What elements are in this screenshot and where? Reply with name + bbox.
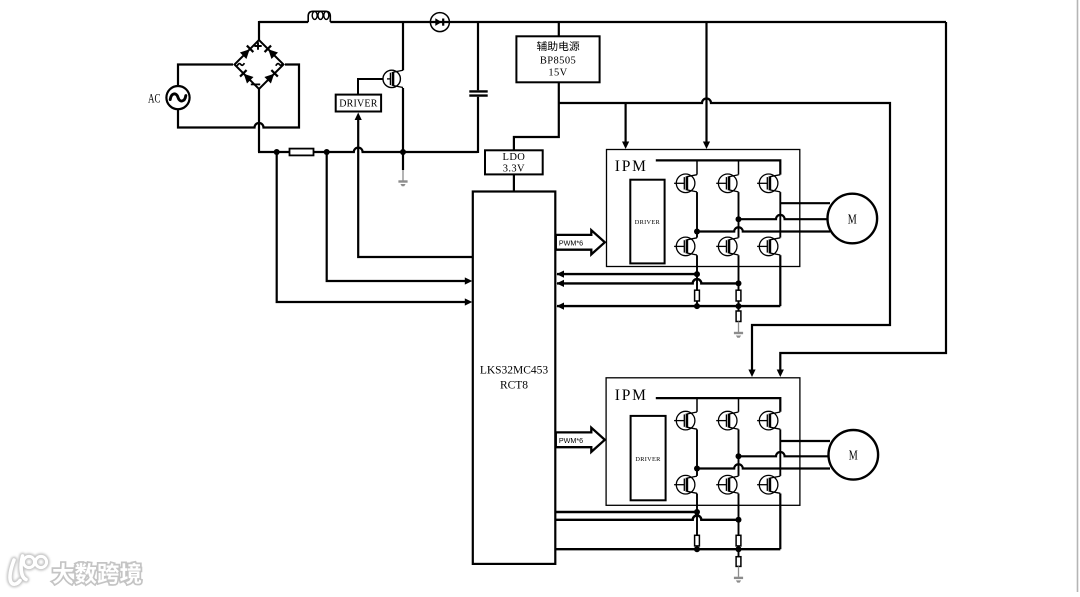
- svg-text:DRIVER: DRIVER: [635, 219, 661, 226]
- motor M2: [829, 430, 879, 480]
- arrow 15V into IPM2: [748, 370, 755, 378]
- svg-text:M: M: [848, 211, 857, 226]
- ground rail under PFC: [258, 148, 478, 152]
- feedback wire to MCU pin1 (y302): [277, 152, 466, 302]
- bridge ~ marks: [237, 63, 283, 66]
- IPM1 phase A output (hop at 738.5): [697, 227, 830, 231]
- aux supply top lead: [558, 21, 560, 36]
- HV DC bus top rail: [259, 21, 946, 23]
- bridge + mark: [254, 42, 261, 49]
- IPM2 bus drop U: [696, 398, 698, 412]
- bridge rectifier BR1: [235, 40, 284, 89]
- LDO U3 box: [485, 150, 543, 174]
- watermark logo: [10, 556, 47, 584]
- IPM1 phase rail 3: [779, 192, 781, 238]
- svg-text:3.3V: 3.3V: [503, 164, 525, 175]
- IPM2 phase B output (hop at 780): [739, 452, 831, 456]
- svg-text:15V: 15V: [548, 68, 567, 79]
- IPM1 phase rail 2: [738, 192, 740, 238]
- IPM2 top bus: [656, 398, 781, 412]
- IPM1 resistor RS3: [736, 311, 741, 322]
- motor M1: [828, 194, 878, 244]
- IPM2 box: [606, 378, 800, 506]
- gate wire DRIVER1 to Q1: [358, 79, 387, 95]
- boost diode D5: [430, 13, 449, 32]
- IPM1 lower rails to shunts: [696, 255, 698, 306]
- wire AC top to bridge left: [178, 65, 233, 87]
- IPM2 lower transistor Q5: [718, 475, 737, 494]
- IPM1 ground: [734, 322, 743, 338]
- node dot A: [274, 149, 280, 155]
- IPM2 phase rail 2: [738, 429, 740, 476]
- IPM2 shunt resistor RS5: [736, 535, 741, 546]
- PWM arrow 2: [556, 428, 605, 452]
- wire Q1 drain from HV rail: [402, 21, 404, 70]
- arrow HV into IPM2: [777, 370, 784, 378]
- IPM2 phase A output (hop at 738.5): [697, 464, 830, 468]
- IPM1 shunt resistor RS1: [695, 290, 700, 301]
- IPM1 phase C output: [780, 202, 830, 204]
- shunt resistor R1: [290, 149, 314, 156]
- IPM1 upper transistor Q3: [759, 174, 778, 193]
- right page border line: [1077, 0, 1079, 592]
- IPM2 feedback line y549: [555, 548, 780, 550]
- IPM2 DRIVER box: [631, 416, 666, 500]
- aux label 辅助电源: [537, 41, 547, 51]
- IPM2 feedback line y512: [555, 511, 697, 513]
- IPM2 upper transistor Q3: [759, 411, 778, 430]
- ground G1: [402, 152, 404, 170]
- svg-text:IPM: IPM: [615, 387, 648, 404]
- IPM1 DRIVER box: [630, 180, 664, 264]
- IPM2 resistor RS6: [736, 557, 741, 567]
- IPM2 lower transistor Q6: [759, 475, 778, 494]
- IPM2 phase C output: [780, 440, 830, 442]
- arrow into DRIVER1: [355, 113, 362, 121]
- IPM2 bus drop V: [738, 398, 740, 412]
- svg-text:DRIVER: DRIVER: [635, 456, 661, 463]
- DRIVER1 box: [336, 95, 381, 112]
- svg-text:PWM*6: PWM*6: [559, 436, 583, 445]
- node dot B: [324, 149, 330, 155]
- transistor Q1: [383, 70, 400, 87]
- 15V branch arrow into IPM1: [624, 103, 626, 142]
- IPM2 shunt resistor RS4: [695, 535, 700, 546]
- IPM2 lower rails to shunts: [696, 494, 698, 550]
- svg-text:IPM: IPM: [615, 158, 648, 175]
- IPM2 lower transistor Q4: [676, 475, 695, 494]
- IPM1 top bus: [656, 160, 781, 174]
- inductor L1: [308, 11, 330, 22]
- svg-text:PWM*6: PWM*6: [559, 238, 583, 247]
- svg-text:AC: AC: [148, 90, 161, 105]
- IPM1 shunt resistor RS2: [736, 290, 741, 301]
- MCU U1 box: [473, 192, 556, 564]
- IPM1 phase B output (hop at 780): [739, 215, 831, 219]
- IPM1 lower transistor Q5: [718, 237, 737, 256]
- HV branch into IPM1 (x706.5): [705, 22, 707, 142]
- svg-text:DRIVER: DRIVER: [339, 99, 378, 110]
- IPM2 phase rail 1: [696, 429, 698, 476]
- svg-text:M: M: [849, 448, 858, 463]
- svg-text:LKS32MC453: LKS32MC453: [480, 365, 549, 377]
- svg-text:BP8505: BP8505: [540, 56, 576, 67]
- aux power supply U2 box: [516, 36, 599, 82]
- LDO to MCU lead: [513, 174, 515, 192]
- HV right drop to IPM2: [780, 22, 946, 370]
- feedback wire to MCU pin2 (y281): [327, 152, 466, 281]
- node dot C: [400, 149, 406, 155]
- IPM1 lower transistor Q6: [759, 237, 778, 256]
- IPM2 feedback line y519.8 (hop at 697): [555, 516, 738, 520]
- IPM1 bus drop V-phase: [738, 160, 740, 174]
- wire AC bottom to bridge right (hop at x259): [178, 65, 299, 128]
- driver/MCU wire (y257): [358, 120, 473, 258]
- wire Q1 source to ground rail: [402, 88, 404, 153]
- wire bridge bottom to ground rail: [258, 88, 260, 152]
- bridge - mark: [251, 83, 260, 85]
- IPM1 phase rail 1: [696, 192, 698, 238]
- AC source V1: [166, 86, 189, 109]
- IPM1 upper transistor Q1: [676, 174, 695, 193]
- IPM1 feedback line y274: [557, 273, 697, 275]
- capacitor C1 bottom lead: [477, 97, 479, 153]
- IPM2 ground: [734, 566, 743, 582]
- IPM2 phase rail 3: [779, 429, 781, 476]
- capacitor C1 top lead: [477, 21, 479, 90]
- capacitor C1: [469, 91, 487, 95]
- IPM1 upper transistor Q2: [718, 174, 737, 193]
- watermark text 大数跨境: [53, 563, 74, 584]
- svg-text:LDO: LDO: [503, 152, 526, 163]
- IPM1 feedback line y306: [557, 305, 780, 307]
- IPM2 upper transistor Q1: [676, 411, 695, 430]
- IPM2 upper transistor Q2: [718, 411, 737, 430]
- svg-text:RCT8: RCT8: [500, 380, 528, 392]
- wire bridge top to HV rail: [258, 21, 260, 41]
- PWM arrow 1: [556, 230, 605, 254]
- IPM1 bus drop U-phase: [696, 160, 698, 174]
- IPM1 box: [607, 150, 800, 267]
- 15V rail: [559, 99, 890, 370]
- aux bottom lead to LDO: [514, 82, 559, 150]
- IPM1 feedback line y283 (hop at 697): [557, 279, 739, 283]
- IPM1 lower transistor Q4: [676, 237, 695, 256]
